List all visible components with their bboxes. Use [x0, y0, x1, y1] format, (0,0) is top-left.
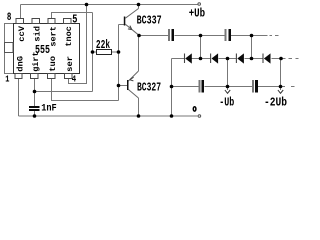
wire BC337 collector stub	[138, 5, 140, 9]
svg-text:+Ub: +Ub	[189, 7, 205, 21]
wire BC327 collector to 0 rail	[138, 98, 140, 116]
wire node A vertical	[200, 36, 202, 59]
wire BC327 base lead	[119, 85, 128, 87]
node -Ub tap arrow	[225, 90, 230, 93]
wire diode row segment 3	[219, 58, 237, 60]
wire C1 to node A	[175, 35, 201, 37]
wire base node vertical	[118, 25, 120, 101]
svg-text:1nF: 1nF	[41, 103, 57, 114]
svg-text:5: 5	[72, 13, 77, 26]
wire row2 segment 3	[258, 86, 285, 88]
transistor Q2 BC327	[127, 71, 139, 98]
capacitor C3 plates	[199, 80, 201, 93]
pin box cont 5	[64, 19, 71, 24]
diode D1	[185, 53, 192, 63]
wire emitters vertical between transistors	[138, 36, 140, 72]
pin box res 4	[65, 74, 72, 79]
pin box Vcc 8	[16, 19, 23, 24]
wire 22k left lead	[93, 51, 97, 53]
wire -Ub vertical	[227, 59, 229, 87]
svg-text:4: 4	[72, 74, 77, 85]
wire C2 right	[231, 35, 267, 37]
diode D2	[211, 53, 219, 63]
diode D3	[236, 53, 244, 63]
junction node A row1	[199, 34, 203, 38]
junction 1nF at 0 rail	[33, 114, 37, 118]
svg-text:sid: sid	[33, 26, 43, 42]
svg-text:8: 8	[7, 12, 12, 24]
junction trig node	[33, 90, 37, 94]
terminal 0 circle	[198, 115, 201, 118]
IC left notch box	[5, 43, 14, 53]
junction BC337 collector at +Ub rail	[137, 3, 141, 7]
net label 0	[193, 107, 196, 111]
wire row1 emitters to C1	[139, 35, 168, 37]
wire 1nF bottom to rail	[34, 111, 36, 116]
svg-text:ser: ser	[66, 56, 75, 72]
wire res pin 4 tie to +Ub rail	[69, 5, 87, 84]
svg-text:girt: girt	[31, 51, 41, 71]
svg-text:22k: 22k	[96, 38, 110, 52]
wire top +Ub rail	[21, 4, 198, 6]
junction node C diode row	[250, 57, 254, 61]
svg-text:1: 1	[5, 74, 9, 85]
wire -2Ub tap stub	[280, 87, 282, 91]
wire trig pin 2 down to 1nF	[34, 79, 36, 107]
capacitor C4 plates	[252, 80, 254, 93]
wire diode row segment 5	[272, 58, 286, 60]
capacitor C1 plates	[168, 29, 170, 41]
junction BC327 base	[117, 84, 121, 88]
wire tres pin 6 riser to oscillator node	[52, 13, 93, 19]
junction row2 left	[170, 85, 174, 89]
junction node C row1	[250, 34, 254, 38]
IC U1 555 body	[14, 24, 80, 74]
junction emitters node	[137, 34, 141, 38]
node -2Ub tap arrow	[278, 90, 283, 93]
wire diode row segment 1	[172, 58, 185, 60]
junction -2Ub tap	[279, 85, 283, 89]
svg-text:ccV: ccV	[18, 26, 27, 42]
wire Vcc pin 8 riser	[20, 5, 22, 19]
pin box trig 2	[31, 74, 38, 79]
wire node A to C2	[201, 35, 225, 37]
capacitor C5 1nF plates	[29, 106, 40, 108]
junction BC327 collector at 0 rail	[137, 114, 141, 118]
wire Gnd pin 1 down	[18, 79, 20, 117]
junction ladder return at 0 rail	[170, 114, 174, 118]
wire diode row segment 2	[191, 58, 210, 60]
pin box Gnd 1	[15, 74, 22, 79]
wire -2Ub vertical	[280, 59, 282, 87]
svg-text:BC337: BC337	[137, 14, 162, 28]
wire row2 segment 2	[204, 86, 252, 88]
junction 22k right	[117, 50, 121, 54]
wire trig junction to tres vertical	[35, 91, 93, 93]
svg-text:-Ub: -Ub	[219, 96, 234, 110]
wire diode row dashes	[288, 58, 292, 60]
wire 22k right lead	[112, 51, 119, 53]
wire 0V bottom rail	[19, 115, 198, 117]
wire left outline loop	[5, 24, 14, 74]
wire row2 segment 1	[172, 86, 199, 88]
resistor R1 22k body	[97, 50, 112, 55]
wire trig/tres/22k node vertical	[92, 13, 94, 92]
diode D4	[263, 53, 271, 63]
wire diode row segment 4	[245, 58, 263, 60]
wire row2 dash	[291, 86, 295, 88]
junction node B diode row	[226, 57, 230, 61]
wire -Ub tap stub	[227, 87, 229, 91]
wire row1 dash continuation	[270, 35, 273, 37]
wire node C vertical	[251, 36, 253, 59]
capacitor C2 plates	[225, 29, 227, 41]
transistor Q1 BC337	[124, 9, 139, 36]
svg-text:sert: sert	[49, 26, 58, 46]
wire out pin 3 down and right to bases	[52, 79, 119, 101]
junction 22k left	[91, 50, 95, 54]
svg-text:tuo: tuo	[49, 56, 58, 72]
junction -Ub tap	[226, 85, 230, 89]
pin box out 3	[47, 74, 54, 79]
svg-text:tnoc: tnoc	[65, 26, 74, 46]
junction node A diode row	[199, 57, 203, 61]
junction node D diode row	[279, 57, 283, 61]
wire diode row left riser to 0 rail	[171, 59, 173, 117]
svg-text:dnG: dnG	[15, 56, 25, 72]
pin box tres 6	[48, 19, 55, 24]
svg-text:BC327: BC327	[137, 81, 161, 95]
pin box dis 7	[32, 19, 39, 24]
svg-text:-2Ub: -2Ub	[264, 96, 287, 110]
wire BC337 base lead	[119, 24, 124, 26]
junction res tie at +Ub rail	[85, 3, 89, 7]
terminal +Ub circle	[198, 3, 201, 6]
